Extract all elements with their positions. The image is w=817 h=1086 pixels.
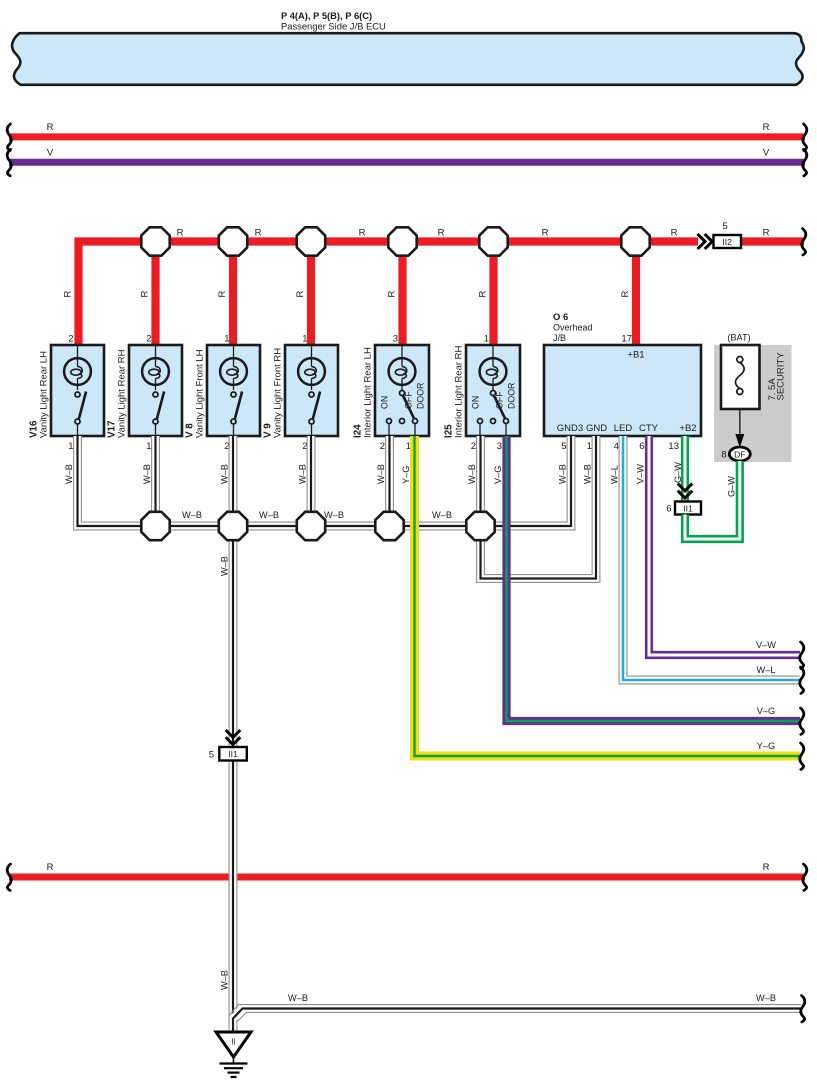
- svg-text:R: R: [542, 228, 549, 239]
- svg-text:R: R: [47, 122, 54, 133]
- interior lamp I25 Interior Light Rear RH: [444, 334, 521, 453]
- svg-text:3: 3: [497, 441, 502, 452]
- svg-text:R: R: [763, 862, 770, 873]
- svg-text:1: 1: [484, 334, 489, 345]
- svg-text:R: R: [63, 291, 74, 298]
- svg-text:W–B: W–B: [259, 510, 279, 520]
- label W-B on row: [259, 510, 279, 520]
- label W-B: [583, 464, 593, 484]
- label V-G: [493, 466, 503, 484]
- label W-B on ground wire lower: [220, 970, 230, 990]
- interior lamp I24 Interior Light Rear LH: [353, 334, 430, 453]
- junction node F (red bus): [621, 227, 649, 255]
- svg-text:DOOR: DOOR: [416, 383, 426, 409]
- svg-text:W–L: W–L: [757, 665, 776, 675]
- svg-text:V: V: [47, 148, 54, 159]
- svg-text:CTY: CTY: [639, 423, 659, 434]
- label R on drop wire: [478, 291, 489, 298]
- connector DF pin 8: [721, 447, 750, 461]
- label V-W: [636, 464, 646, 484]
- connector II1 pin 5: [209, 747, 247, 761]
- label W-B on ground wire: [220, 556, 230, 576]
- svg-text:5: 5: [561, 441, 566, 452]
- connector arrows into II1 left: [226, 730, 241, 745]
- label W-B: [558, 464, 568, 484]
- label R on bus: [542, 228, 549, 239]
- svg-text:W–L: W–L: [610, 465, 620, 484]
- svg-text:R: R: [763, 122, 770, 133]
- svg-text:+B1: +B1: [627, 350, 644, 361]
- svg-text:II: II: [231, 1038, 235, 1047]
- svg-text:2: 2: [380, 441, 385, 452]
- connector II1 pin 6: [666, 502, 701, 515]
- junction node J (ground row): [375, 512, 403, 540]
- svg-text:P 4(A), P 5(B), P 6(C): P 4(A), P 5(B), P 6(C): [281, 10, 372, 21]
- svg-text:2: 2: [146, 334, 151, 345]
- label R on bus: [438, 228, 445, 239]
- wire Y-G from I24 pin 1: [415, 436, 804, 770]
- lamp V16 Vanity Light Rear LH: [29, 334, 105, 453]
- svg-text:W–B: W–B: [220, 970, 230, 990]
- label 7.5A SECURITY: [767, 352, 787, 401]
- label W-B: [376, 464, 386, 484]
- wire W-B crossing red rail: [229, 868, 237, 886]
- svg-text:OFF: OFF: [495, 391, 505, 409]
- wire R drop to O6 +B1: [632, 242, 640, 346]
- svg-text:(BAT): (BAT): [727, 333, 750, 343]
- svg-text:R: R: [763, 228, 770, 239]
- svg-text:5: 5: [209, 750, 214, 761]
- label R on bus: [763, 228, 770, 239]
- label W-B: [467, 464, 477, 484]
- junction node E (red bus): [479, 227, 507, 255]
- svg-text:1: 1: [146, 441, 151, 452]
- connector arrows into II2: [698, 234, 713, 249]
- lamp V17 Vanity Light Rear RH: [107, 334, 183, 453]
- svg-text:OFF: OFF: [404, 391, 414, 409]
- label W-B on row: [432, 510, 452, 520]
- svg-text:Vanity Light Front RH: Vanity Light Front RH: [273, 348, 284, 438]
- label R on bus: [177, 228, 184, 239]
- battery supply area (shaded): [714, 345, 792, 462]
- svg-text:G–W: G–W: [673, 462, 683, 483]
- label R on drop wire: [295, 291, 306, 298]
- svg-text:V–W: V–W: [756, 640, 776, 650]
- wire W-L from O6 pin 4 LED: [619, 436, 804, 694]
- label Passenger Side J/B ECU connectors P4(A) P5(B) P6(C): [281, 10, 386, 32]
- label W-B: [142, 464, 152, 484]
- svg-text:GND: GND: [586, 423, 607, 434]
- wire fuse to DF: [735, 409, 744, 448]
- svg-text:V–G: V–G: [493, 466, 503, 484]
- svg-text:6: 6: [666, 504, 671, 515]
- svg-text:W–B: W–B: [298, 464, 308, 484]
- svg-text:LED: LED: [614, 423, 633, 434]
- wire W-B from I24 pin 2: [386, 436, 394, 526]
- wire G-W from II1 to DF: [685, 461, 740, 539]
- svg-text:3: 3: [393, 334, 398, 345]
- junction node H (ground row): [219, 512, 247, 540]
- label W-B: [298, 464, 308, 484]
- label W-B on row: [182, 510, 202, 520]
- wire W-B from O6 pin 5 GND3: [484, 436, 575, 530]
- svg-text:Interior Light Rear RH: Interior Light Rear RH: [454, 345, 465, 438]
- svg-text:4: 4: [614, 441, 619, 452]
- fuse 7.5A SECURITY: [721, 345, 760, 409]
- svg-text:V–W: V–W: [636, 464, 646, 484]
- svg-text:W–B: W–B: [182, 510, 202, 520]
- svg-text:ON: ON: [471, 396, 481, 409]
- svg-text:W–B: W–B: [220, 464, 230, 484]
- label R on bus: [359, 228, 366, 239]
- wire V-G from I25 pin 3: [507, 436, 804, 735]
- junction node G (ground row): [141, 512, 169, 540]
- wire V (violet rail): [7, 148, 807, 176]
- svg-text:W–B: W–B: [376, 464, 386, 484]
- wire W-B to ground: [229, 530, 237, 1032]
- label (BAT): [727, 333, 750, 343]
- svg-text:J/B: J/B: [553, 333, 566, 343]
- wire R drop to V9: [307, 242, 315, 346]
- wire R drop to I24: [398, 242, 406, 346]
- svg-text:Vanity Light Front LH: Vanity Light Front LH: [195, 349, 206, 438]
- svg-text:R: R: [255, 228, 262, 239]
- svg-text:5: 5: [722, 221, 727, 232]
- label R on bus: [671, 228, 678, 239]
- label R on drop wire: [140, 291, 151, 298]
- label R on drop wire: [63, 291, 74, 298]
- label G-W at pin 13: [673, 462, 683, 483]
- svg-text:Vanity Light Rear LH: Vanity Light Rear LH: [39, 351, 50, 438]
- label R on bus: [255, 228, 262, 239]
- svg-text:R: R: [177, 228, 184, 239]
- label W-B on row: [324, 510, 344, 520]
- junction node K (ground row): [466, 512, 494, 540]
- label R on drop wire: [620, 291, 631, 298]
- junction node I (ground row): [297, 512, 325, 540]
- svg-text:V–G: V–G: [757, 706, 775, 716]
- wire V-W from O6 pin 6 CTY: [649, 436, 804, 669]
- svg-text:G–W: G–W: [726, 476, 736, 497]
- svg-text:W–B: W–B: [288, 993, 308, 1003]
- label W-B: [64, 464, 74, 484]
- svg-text:SECURITY: SECURITY: [776, 352, 787, 401]
- wire W-B junction row: [156, 522, 481, 530]
- svg-text:R: R: [478, 291, 489, 298]
- svg-text:DF: DF: [734, 450, 745, 460]
- label R on drop wire: [217, 291, 228, 298]
- svg-text:13: 13: [668, 441, 679, 452]
- svg-text:R: R: [438, 228, 445, 239]
- svg-text:W–B: W–B: [558, 464, 568, 484]
- wire W-B branch to right: [229, 993, 805, 1022]
- svg-text:W–B: W–B: [64, 464, 74, 484]
- svg-text:V: V: [763, 148, 770, 159]
- svg-text:+B2: +B2: [679, 423, 696, 434]
- svg-text:R: R: [140, 291, 151, 298]
- svg-text:II1: II1: [228, 749, 238, 759]
- label R on drop wire: [387, 291, 398, 298]
- junction node D (red bus): [388, 227, 416, 255]
- svg-text:O 6: O 6: [553, 312, 568, 323]
- svg-text:2: 2: [68, 334, 73, 345]
- wire R drop to V17: [151, 242, 159, 346]
- svg-text:6: 6: [639, 441, 644, 452]
- svg-text:Y–G: Y–G: [401, 466, 411, 484]
- wire W-B from V8 pin 2: [229, 436, 237, 526]
- svg-text:17: 17: [621, 334, 632, 345]
- wire W-B from V16 pin 1: [74, 436, 152, 530]
- wire G-W from O6 pin 13 +B2: [681, 436, 689, 502]
- lamp V 8 Vanity Light Front LH: [185, 334, 261, 453]
- svg-text:II1: II1: [683, 503, 693, 513]
- wire R (bottom rail): [7, 862, 807, 891]
- label W-B: [220, 464, 230, 484]
- svg-text:R: R: [295, 291, 306, 298]
- svg-text:W–B: W–B: [583, 464, 593, 484]
- connector II2 pin 5: [714, 221, 742, 248]
- ground II: [216, 1032, 251, 1077]
- svg-text:R: R: [387, 291, 398, 298]
- svg-text:1: 1: [224, 334, 229, 345]
- wire R (top rail): [7, 122, 807, 150]
- svg-text:Y–G: Y–G: [757, 741, 775, 751]
- junction node B (red bus): [219, 227, 247, 255]
- wire R drop to V8: [229, 242, 237, 346]
- svg-text:Vanity Light Rear RH: Vanity Light Rear RH: [117, 349, 128, 438]
- svg-text:R: R: [620, 291, 631, 298]
- svg-text:R: R: [217, 291, 228, 298]
- junction block O6 Overhead J/B: [544, 312, 701, 452]
- svg-text:W–B: W–B: [220, 556, 230, 576]
- svg-text:W–B: W–B: [467, 464, 477, 484]
- wire R bus to lamps: [79, 242, 699, 346]
- svg-text:1: 1: [68, 441, 73, 452]
- svg-text:Passenger Side J/B ECU: Passenger Side J/B ECU: [281, 21, 386, 32]
- svg-text:W–B: W–B: [324, 510, 344, 520]
- connector strip P4/P5/P6 Passenger Side J/B ECU: [12, 33, 804, 85]
- svg-text:1: 1: [302, 334, 307, 345]
- label Y-G: [401, 466, 411, 484]
- wire W-B from V9 pin 2: [307, 436, 315, 526]
- junction node A (red bus): [141, 227, 169, 255]
- junction node C (red bus): [297, 227, 325, 255]
- svg-text:R: R: [671, 228, 678, 239]
- label W-L: [610, 465, 620, 484]
- svg-text:R: R: [359, 228, 366, 239]
- svg-text:Interior Light Rear LH: Interior Light Rear LH: [363, 347, 374, 438]
- svg-text:1: 1: [587, 441, 592, 452]
- wire W-B from O6 pin 1 GND: [477, 436, 600, 582]
- svg-text:ON: ON: [380, 396, 390, 409]
- svg-text:II2: II2: [722, 237, 732, 247]
- wire W-B from V17 pin 1: [152, 436, 160, 526]
- svg-text:W–B: W–B: [432, 510, 452, 520]
- svg-text:2: 2: [471, 441, 476, 452]
- svg-text:W–B: W–B: [756, 993, 776, 1003]
- wire R drop to I25: [489, 242, 497, 346]
- svg-text:8: 8: [721, 450, 726, 461]
- wire W-B from I25 pin 2: [477, 436, 485, 526]
- connector arrows into II1 right: [678, 484, 693, 499]
- svg-text:GND3: GND3: [557, 423, 583, 434]
- svg-text:Overhead: Overhead: [553, 323, 593, 333]
- svg-text:DOOR: DOOR: [507, 383, 517, 409]
- svg-text:W–B: W–B: [142, 464, 152, 484]
- lamp V 9 Vanity Light Front RH: [263, 334, 339, 453]
- label G-W at DF riser: [726, 476, 736, 497]
- svg-text:R: R: [47, 862, 54, 873]
- wire R from II2 to right: [741, 229, 806, 256]
